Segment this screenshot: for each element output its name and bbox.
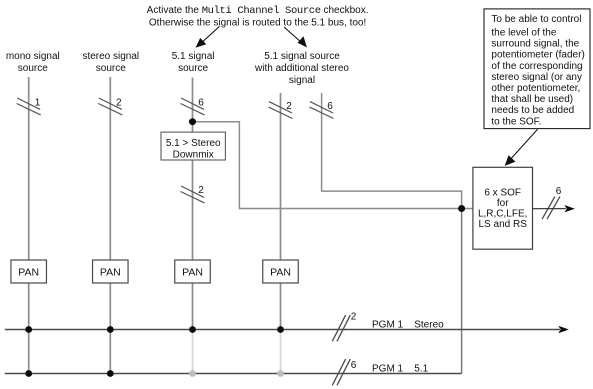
svg-text:PGM 1 Stereo: PGM 1 Stereo [372,319,444,330]
svg-text:6 x SOF: 6 x SOF [484,187,521,198]
wire riser 5.1 bus to SOF input [461,209,463,374]
svg-text:signal: signal [289,75,315,86]
svg-text:source: source [18,63,48,74]
svg-text:of the corresponding: of the corresponding [491,61,582,72]
arrowhead SOF output [564,205,575,212]
wire 5.1 source column lower light segment [192,330,194,374]
wire downmix branch to SOF [193,122,473,209]
svg-text:stereo signal: stereo signal [82,51,139,62]
svg-text:6: 6 [351,360,357,371]
wire 5.1+stereo source column (2ch) [280,93,282,330]
svg-text:Downmix: Downmix [173,150,214,161]
svg-text:PAN: PAN [18,267,39,279]
svg-text:surround signal, the: surround signal, the [491,39,579,50]
svg-text:to the SOF.: to the SOF. [491,116,541,127]
svg-text:2: 2 [351,312,357,323]
junction dot stereo / 5.1 bus [107,370,114,377]
svg-text:6: 6 [327,101,333,112]
annotation arrow to 5.1 signal source [200,26,220,44]
box PAN 1 [11,260,47,283]
junction dot 5.1 source branch [189,118,196,125]
bus-width marker 6ch on PGM1 5.1 bus [332,359,350,385]
svg-text:2: 2 [116,98,122,109]
box 5.1 > Stereo Downmix [161,132,225,160]
svg-text:Activate the Multi Channel Sou: Activate the Multi Channel Source checkb… [147,5,369,17]
svg-text:L,R,C,LFE,: L,R,C,LFE, [478,209,527,220]
svg-text:2: 2 [286,101,292,112]
wire SOF output [533,208,567,210]
svg-text:6: 6 [198,98,204,109]
svg-text:with additional stereo: with additional stereo [254,63,349,74]
junction dot mono / 5.1 bus [25,370,32,377]
svg-text:To be able to control: To be able to control [491,14,581,25]
svg-text:stereo signal (or any: stereo signal (or any [491,72,582,83]
svg-text:6: 6 [556,186,562,197]
svg-text:needs to be added: needs to be added [491,105,574,116]
svg-text:source: source [178,63,208,74]
box PAN 2 [93,260,129,283]
svg-text:PAN: PAN [270,267,291,279]
bus-width marker 1ch on mono column [17,98,41,115]
junction dot gray 5.1 / 5.1 bus [189,370,196,377]
svg-text:for: for [497,198,509,209]
svg-text:5.1 signal source: 5.1 signal source [264,51,340,62]
wire mono source column [28,77,30,374]
annotation arrow to 5.1+stereo source [284,27,303,44]
box PAN 4 [263,260,299,283]
bus-width marker 2ch below downmix [181,186,205,203]
bus-width marker 2ch on PGM1 stereo bus [332,315,350,341]
junction dot 5.1+stereo / stereo bus [277,326,284,333]
bus-width marker 6ch on 5.1 column [181,98,205,115]
svg-text:1: 1 [35,98,41,109]
junction dot stereo / stereo bus [107,326,114,333]
svg-text:mono signal: mono signal [6,51,60,62]
svg-text:PAN: PAN [100,267,121,279]
bus PGM 1 5.1 [5,373,462,375]
wire stereo source column [109,77,111,374]
wire 5.1+stereo source column lower light segment [280,330,282,374]
svg-text:potentiometer (fader): potentiometer (fader) [491,50,584,61]
arrowhead PGM 1 Stereo [558,326,569,333]
svg-text:2: 2 [198,185,204,196]
annotation arrow note to SOF box [508,129,538,162]
svg-text:Otherwise the signal is routed: Otherwise the signal is routed to the 5.… [149,17,366,28]
bus-width marker 2ch on stereo column [98,98,122,115]
wire 5.1 source column [192,78,194,330]
bus PGM 1 Stereo [5,329,560,331]
svg-text:other potentiometer,: other potentiometer, [491,83,580,94]
bus-width marker 2ch on 5.1+stereo column [269,102,293,119]
box 6 x SOF [473,167,533,249]
junction dot gray 5.1+stereo / 5.1 bus [277,370,284,377]
bus-width marker 6ch on additional column [310,102,334,119]
junction dot 5.1 / stereo bus [189,326,196,333]
svg-text:5.1 signal: 5.1 signal [172,51,215,62]
svg-text:that shall be used): that shall be used) [491,94,573,105]
bus-width marker 6ch on SOF output [542,197,560,220]
svg-text:source: source [96,63,126,74]
junction dot SOF input [458,205,465,212]
svg-text:LS and RS: LS and RS [479,219,528,230]
junction dot mono / stereo bus [25,326,32,333]
svg-text:PGM 1 5.1: PGM 1 5.1 [372,364,429,375]
box PAN 3 [175,260,211,283]
wire 5.1+stereo source 6ch to SOF [322,93,462,209]
svg-text:PAN: PAN [182,267,203,279]
svg-text:the level of the: the level of the [491,28,556,39]
note box to be able to control [484,9,590,129]
svg-text:5.1 > Stereo: 5.1 > Stereo [166,138,221,149]
